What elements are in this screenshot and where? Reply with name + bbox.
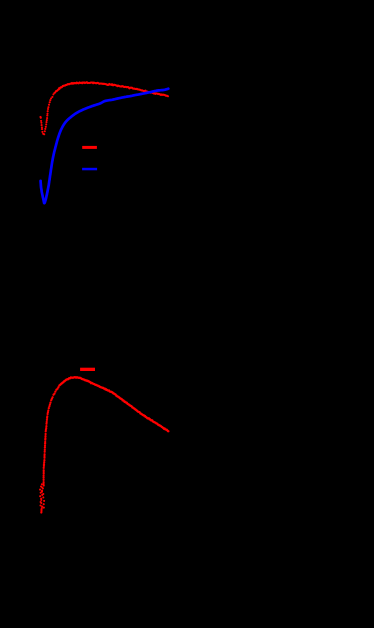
top chart blue curve (solid, V-dip then rise) <box>41 89 169 204</box>
top chart legend red dash <box>82 146 97 149</box>
top chart legend blue dash <box>82 168 97 171</box>
bottom chart legend red dash <box>80 368 95 371</box>
top chart red curve (dotted markers, V-dip then plateau) <box>39 81 169 135</box>
bottom chart red noise tail at low current <box>39 483 45 513</box>
bottom chart red curve (dotted markers, rise peak decay) <box>42 376 169 485</box>
